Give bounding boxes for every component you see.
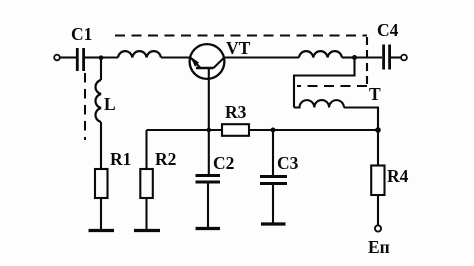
wire R4 to En terminal bbox=[377, 195, 379, 226]
wire node B to C4 bbox=[355, 56, 383, 58]
svg-text:T: T bbox=[369, 84, 381, 104]
wire VT base down to mid node bbox=[208, 68, 210, 130]
dashed line left of L bbox=[84, 73, 86, 140]
wire base node to C2 bbox=[208, 130, 210, 174]
wire mid to R2 bbox=[145, 130, 147, 169]
capacitor C1 bbox=[77, 48, 83, 71]
wire node B down and left to secondary bbox=[294, 58, 355, 108]
node C junction bbox=[375, 127, 381, 133]
ground (R2) bbox=[134, 229, 160, 232]
output terminal bbox=[401, 55, 407, 61]
mid wire R2 to R3 bbox=[147, 129, 223, 131]
svg-text:L: L bbox=[104, 94, 116, 114]
wire node C to R4 bbox=[377, 130, 379, 166]
resistor R3 bbox=[222, 124, 249, 136]
wire C1 to node A bbox=[85, 56, 101, 58]
wire node A down to L bbox=[100, 58, 102, 81]
svg-text:Eп: Eп bbox=[368, 237, 390, 257]
wire inductor to VT bbox=[161, 56, 191, 58]
node A junction bbox=[99, 55, 104, 60]
transformer T secondary bbox=[294, 100, 344, 107]
capacitor C3 bbox=[260, 177, 287, 184]
wire R1 to ground bbox=[100, 198, 102, 230]
inductor L bbox=[95, 80, 101, 122]
ground (C2) bbox=[196, 227, 221, 230]
svg-text:R4: R4 bbox=[387, 166, 409, 186]
input terminal bbox=[54, 55, 60, 61]
svg-text:R2: R2 bbox=[155, 149, 176, 169]
resistor R4 bbox=[371, 166, 384, 196]
wire R2 to ground bbox=[145, 198, 147, 230]
terminal En bbox=[375, 225, 381, 231]
ground (R1) bbox=[89, 229, 115, 232]
junction base/mid wire bbox=[207, 128, 212, 133]
wire C3 to ground bbox=[272, 185, 274, 223]
dashed box bottom bbox=[297, 85, 367, 87]
svg-text:C3: C3 bbox=[277, 153, 299, 173]
wire VT collector to transformer bbox=[224, 56, 299, 58]
wire secondary to node C bbox=[344, 108, 378, 131]
wire mid node to C3 bbox=[272, 130, 274, 175]
wire L to R1 bbox=[100, 122, 102, 169]
resistor R1 bbox=[95, 169, 108, 198]
svg-text:C1: C1 bbox=[71, 24, 92, 44]
svg-text:C2: C2 bbox=[213, 153, 234, 173]
transformer T primary bbox=[299, 51, 342, 57]
svg-text:C4: C4 bbox=[377, 20, 399, 40]
ground (C3) bbox=[261, 222, 286, 225]
svg-text:R3: R3 bbox=[225, 102, 247, 122]
dashed box right bbox=[366, 37, 368, 84]
transistor VT bbox=[190, 44, 225, 79]
dashed box top bbox=[115, 34, 367, 36]
junction C3/mid wire bbox=[271, 128, 276, 133]
capacitor C4 bbox=[384, 45, 390, 70]
node B junction bbox=[352, 55, 357, 60]
inductor (series, to VT emitter) bbox=[118, 51, 161, 57]
resistor R2 bbox=[140, 169, 153, 198]
wire R3 to node C bbox=[249, 129, 378, 131]
svg-text:R1: R1 bbox=[110, 149, 131, 169]
wire primary to node B bbox=[342, 56, 355, 58]
wire C4 to output terminal bbox=[391, 56, 401, 58]
wire C2 to ground bbox=[207, 184, 209, 229]
svg-text:VT: VT bbox=[226, 38, 251, 58]
capacitor C2 bbox=[196, 176, 221, 183]
wire node A to base inductor bbox=[101, 56, 118, 58]
wire input to C1 bbox=[60, 56, 76, 58]
